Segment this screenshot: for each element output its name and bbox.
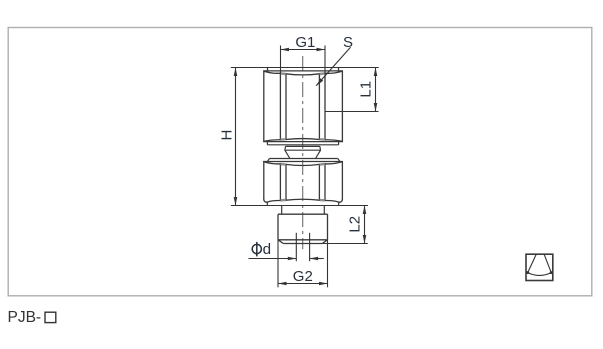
dimension G2 bbox=[278, 268, 328, 285]
threaded stud bbox=[278, 214, 328, 243]
dimension G1 bbox=[281, 34, 326, 52]
nut top plate bbox=[267, 159, 340, 162]
chamfer facet shading nut bbox=[281, 164, 325, 200]
ferrule sleeve bbox=[285, 146, 321, 158]
body hex (top) outline bbox=[264, 68, 343, 142]
label S with leader bbox=[316, 34, 353, 86]
bore lines phi-d bbox=[296, 233, 309, 261]
nut hex bbox=[264, 162, 343, 203]
svg-text:d: d bbox=[263, 241, 271, 258]
dimension L1 bbox=[357, 68, 377, 112]
chamfer facet shading body hex bbox=[281, 73, 325, 139]
dimension L2 bbox=[347, 206, 367, 244]
svg-text:H: H bbox=[219, 130, 236, 141]
dimension phi-d bbox=[249, 241, 324, 260]
svg-text:G2: G2 bbox=[293, 268, 313, 285]
nut bottom plate bbox=[267, 202, 338, 205]
dimension H bbox=[219, 68, 238, 206]
svg-text:PJB-: PJB- bbox=[8, 309, 42, 326]
body bottom plate bbox=[267, 142, 338, 145]
projection symbol bbox=[526, 254, 553, 280]
svg-text:G1: G1 bbox=[295, 34, 315, 51]
svg-text:L1: L1 bbox=[357, 81, 374, 98]
center line bbox=[302, 56, 304, 249]
extension lines bbox=[231, 46, 379, 288]
svg-text:L2: L2 bbox=[347, 216, 364, 233]
PJB model label bbox=[8, 309, 56, 326]
border frame bbox=[8, 28, 592, 296]
collar neck bbox=[282, 206, 325, 215]
svg-text:S: S bbox=[343, 34, 353, 51]
